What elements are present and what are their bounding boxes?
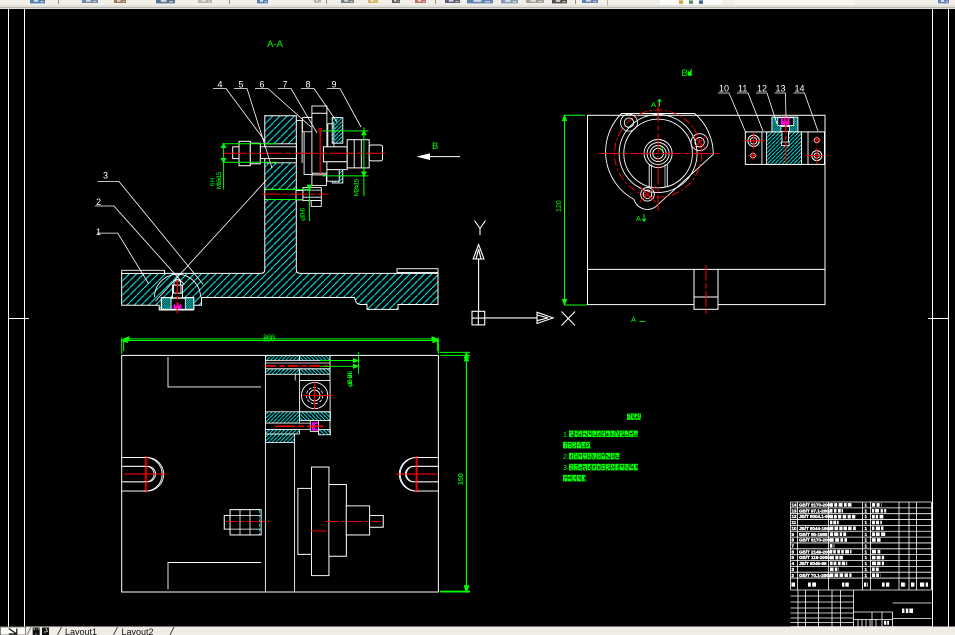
svg-text:14: 14 — [792, 503, 798, 508]
svg-text:12: 12 — [792, 514, 798, 519]
dim 200 — [122, 338, 439, 355]
right U slot — [400, 457, 438, 491]
note line 3b — [563, 475, 567, 482]
svg-text:JB/T 8044-1999: JB/T 8044-1999 — [799, 526, 832, 531]
bottom tab strip — [0, 627, 955, 635]
svg-text:150: 150 — [458, 473, 465, 485]
svg-text:3.: 3. — [563, 465, 569, 472]
plan bolt assembly — [224, 516, 230, 530]
svg-text:GB/T 70.1-2000: GB/T 70.1-2000 — [799, 573, 832, 578]
bracket body (hatched T column + base plate) — [122, 116, 438, 310]
svg-text:120: 120 — [556, 200, 563, 212]
lower boss hole through column — [265, 189, 297, 199]
red dashed slot line — [265, 365, 330, 367]
svg-text:3: 3 — [103, 171, 108, 181]
central sleeve — [323, 147, 347, 162]
svg-text:1.: 1. — [563, 432, 569, 439]
clamp middle hatched — [767, 132, 802, 165]
base strip line — [587, 268, 825, 270]
part7 disc — [328, 124, 334, 175]
svg-text:A: A — [651, 100, 656, 109]
svg-text:GB/T 119-2000: GB/T 119-2000 — [799, 555, 830, 560]
svg-text:A: A — [660, 147, 664, 153]
bolt left tip — [233, 147, 239, 159]
lower boss nut block — [303, 188, 321, 201]
base plate right lip — [397, 269, 438, 273]
column bolt hole — [265, 144, 297, 163]
T-slot stud shank — [174, 285, 182, 293]
note line 1b — [563, 442, 567, 449]
clamp left tail — [265, 434, 294, 443]
svg-text:8: 8 — [306, 80, 311, 90]
bolt head block — [300, 381, 331, 412]
clamp magenta part — [781, 118, 790, 125]
left U slot — [122, 457, 162, 491]
plan view outline — [122, 355, 439, 592]
bolt right tip — [369, 145, 382, 161]
svg-text:A: A — [631, 315, 636, 324]
svg-text:1: 1 — [96, 227, 101, 237]
svg-text:4: 4 — [218, 80, 223, 90]
part6 hub extension — [312, 175, 327, 186]
T-slot cavity — [161, 285, 194, 310]
clamp strip 4 left — [265, 429, 299, 434]
toolbar strip — [0, 0, 955, 6]
dim lower boss — [266, 185, 312, 221]
lower boss centerline — [262, 193, 328, 195]
nut part9 — [347, 140, 369, 168]
spot-face arc over T-slot — [155, 274, 201, 297]
dim 150 — [440, 355, 470, 592]
plan bolt assembly — [224, 516, 230, 530]
tenon centerline — [705, 265, 707, 314]
clamp bolt circles — [748, 135, 759, 146]
svg-text:7: 7 — [283, 80, 288, 90]
clamp centerline — [785, 114, 787, 166]
svg-text:6H: 6H — [211, 178, 217, 186]
clamp strip 3 left — [265, 412, 299, 423]
clamp strip 3 right — [299, 412, 330, 421]
left centering tick — [9, 318, 30, 320]
dim M24x1.5 right — [323, 127, 369, 196]
disc red line — [319, 130, 321, 176]
clamp section verticals — [264, 355, 266, 592]
clamp bar — [745, 132, 824, 165]
sheet outer border right — [948, 9, 950, 627]
right lobe hole — [695, 138, 704, 147]
BOM + title block — [791, 502, 932, 627]
svg-text:2.: 2. — [563, 454, 569, 461]
svg-text:13: 13 — [776, 84, 786, 94]
lower band — [265, 423, 310, 429]
left U slot — [124, 457, 164, 491]
green mini dim plan top — [320, 352, 359, 374]
svg-text:5: 5 — [239, 80, 244, 90]
svg-text:B: B — [432, 141, 438, 152]
svg-text:B: B — [682, 68, 688, 79]
bolt shaft through column — [260, 147, 296, 159]
bottom lobe hole — [641, 188, 655, 202]
svg-text:JB/T 8004.1-99: JB/T 8004.1-99 — [799, 514, 831, 519]
dim 200 — [124, 337, 438, 351]
clamp slot cavity — [778, 118, 794, 126]
svg-text:GB/T 2149-2007: GB/T 2149-2007 — [799, 549, 833, 554]
lower boss washer — [296, 191, 303, 200]
part5 hub box — [303, 118, 312, 132]
svg-text:11: 11 — [792, 520, 797, 525]
svg-text:GB/T 97.1-2002: GB/T 97.1-2002 — [799, 508, 832, 513]
notes title — [627, 414, 630, 420]
T-slot stud washer — [173, 293, 183, 298]
right centering tick — [928, 318, 949, 320]
main bolt centerline — [222, 152, 385, 154]
lower boss step — [311, 201, 321, 207]
svg-text:A: A — [636, 214, 641, 223]
magenta T-nut box — [171, 298, 185, 309]
bolt circle red dashed — [615, 110, 702, 197]
flange plate part5 (tall) — [304, 117, 312, 174]
svg-text:Layout1: Layout1 — [65, 627, 97, 635]
bolt left nut — [239, 141, 250, 165]
clamp strip 2 left — [265, 369, 299, 375]
red clamp screw line — [275, 425, 323, 427]
B view main rectangle — [588, 115, 826, 304]
svg-text:GB/T 6170-2000: GB/T 6170-2000 — [799, 503, 833, 508]
svg-text:9: 9 — [332, 80, 337, 90]
svg-text:M24x1.5: M24x1.5 — [354, 178, 361, 196]
column right step line — [301, 121, 303, 163]
view arrow B (section view right) — [419, 156, 460, 158]
svg-text:Layout2: Layout2 — [122, 627, 154, 635]
dim M16x1.5 left — [221, 143, 277, 189]
T-slot nut hatched block left — [162, 298, 171, 309]
svg-text:10: 10 — [719, 84, 729, 94]
clamp fingers — [295, 374, 299, 380]
svg-text:φ16H7/n6: φ16H7/n6 — [348, 370, 354, 387]
right U slot — [399, 457, 437, 491]
svg-text:2: 2 — [96, 197, 101, 207]
clamp strip 1 left — [265, 355, 299, 360]
keyway below boss — [649, 164, 667, 186]
svg-text:14: 14 — [795, 84, 805, 94]
svg-text:11: 11 — [738, 84, 747, 94]
flange rings — [619, 115, 697, 193]
part8 hatched block upper — [332, 118, 343, 144]
flange plate part6 — [312, 113, 327, 173]
svg-text:GB/T 6170-2000: GB/T 6170-2000 — [799, 538, 833, 543]
svg-text:JB/T 8045-99: JB/T 8045-99 — [799, 561, 827, 566]
part8 hatched block lower — [332, 168, 343, 183]
svg-text:200: 200 — [263, 337, 275, 344]
T-slot stud cap — [174, 281, 181, 285]
svg-text:12: 12 — [757, 84, 767, 94]
T-slot stud centerline — [176, 280, 178, 314]
bolt left washer — [250, 143, 260, 164]
clamp upper block — [772, 117, 798, 132]
dim 150 — [440, 352, 470, 591]
clamp strip 4 right — [319, 429, 331, 434]
flange outline — [606, 114, 714, 210]
clamp strip 1 right — [299, 355, 330, 360]
tenon block — [694, 269, 718, 297]
interior step top-left — [168, 357, 261, 387]
UCS icon — [472, 221, 575, 326]
svg-text:6: 6 — [260, 80, 265, 90]
svg-text:M16x1.5: M16x1.5 — [216, 171, 223, 189]
magenta nut box — [310, 421, 318, 432]
svg-text:13: 13 — [792, 508, 798, 513]
tenon lower block — [694, 297, 718, 309]
magenta crown — [312, 422, 318, 430]
clamp bolt shaft — [782, 125, 789, 144]
flange crosshair — [599, 153, 719, 155]
svg-text:φ10H8: φ10H8 — [301, 207, 307, 221]
center boss circles — [644, 140, 672, 168]
sheet outer border left — [8, 9, 10, 627]
sheet inner border left — [24, 9, 26, 627]
top-left lobe hole — [624, 118, 633, 127]
slot band — [265, 363, 330, 369]
part6 top flange — [312, 106, 327, 113]
interior step bottom-left — [168, 563, 261, 590]
extra leader to column — [156, 180, 267, 301]
base plate left lip — [122, 270, 165, 273]
bolt boss arcs — [621, 114, 638, 131]
T-slot nut hatched block right — [185, 298, 194, 309]
svg-text:GB/T 85-1988: GB/T 85-1988 — [799, 532, 828, 537]
small step box on tall plate — [312, 528, 325, 535]
svg-text:A-A: A-A — [267, 39, 284, 50]
magenta T-nut crown — [174, 302, 182, 308]
clamp strip 2 right — [299, 369, 330, 375]
sheet inner border right — [932, 9, 934, 627]
dim 120 — [562, 115, 587, 305]
svg-text:10: 10 — [792, 526, 798, 531]
